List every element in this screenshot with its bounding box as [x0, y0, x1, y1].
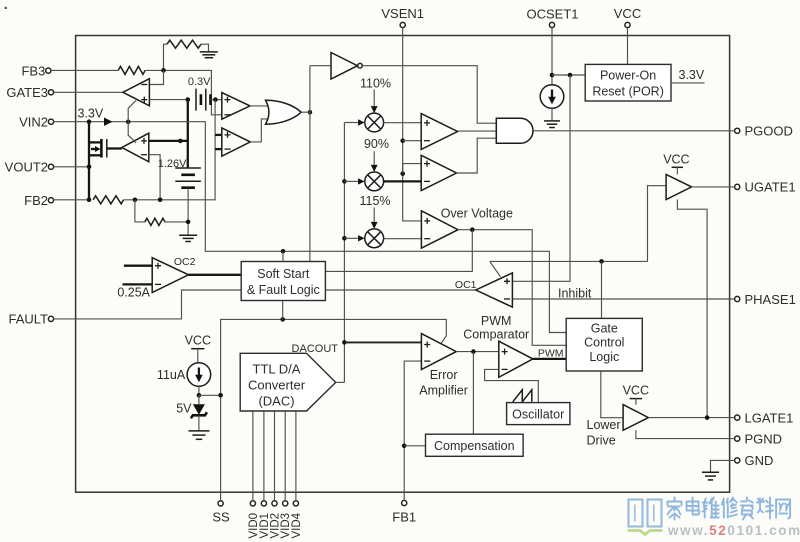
node DACOUT-EA	[342, 340, 421, 345]
wire U5minus stub	[215, 148, 222, 150]
pin VCC	[614, 6, 641, 28]
wire VIN2 3.3V rail	[54, 122, 567, 333]
speck	[5, 7, 7, 9]
wire POR 3.3V output	[671, 82, 705, 84]
arrow 110% down	[371, 90, 378, 114]
svg-text:Gate: Gate	[591, 321, 618, 335]
wire U5plus stub	[215, 134, 222, 136]
wire PWM out to GCL	[533, 358, 566, 360]
watermark site name	[668, 498, 791, 520]
or-gate U6	[266, 100, 302, 124]
pin VID4	[291, 411, 303, 539]
svg-text:Reset (POR): Reset (POR)	[592, 84, 664, 98]
comparator U5 (FB2 monitor)	[222, 128, 251, 156]
node LGATE-UGATE return	[705, 415, 710, 420]
svg-text:Lower: Lower	[587, 418, 621, 432]
buffer U16 UGATE driver	[663, 152, 691, 199]
and-gate U10	[496, 118, 533, 143]
wire VSEN1 vertical net	[403, 28, 422, 221]
pin UGATE1	[735, 180, 796, 195]
svg-text:SS: SS	[212, 510, 230, 525]
pin PGOOD	[735, 124, 793, 139]
wire 1.26V to U3 plus	[149, 140, 188, 142]
svg-text:GND: GND	[745, 453, 774, 468]
wire inhibit to UGATE driver	[648, 186, 667, 262]
wire LGATE out	[648, 417, 734, 419]
pin VID0	[248, 411, 260, 539]
svg-text:FB1: FB1	[392, 510, 416, 525]
svg-text:90%: 90%	[364, 137, 389, 151]
pin PGND	[735, 431, 782, 446]
block Gate Control Logic	[566, 318, 642, 371]
wire OCSET1 to OC1 plus	[512, 75, 570, 281]
label Lower Drive	[587, 418, 621, 448]
svg-text:Over Voltage: Over Voltage	[441, 207, 513, 221]
node softstart top	[281, 249, 286, 262]
current source I2 11uA	[185, 334, 211, 396]
symbol 3.3V arrow	[104, 118, 113, 126]
wire OR out net	[301, 66, 310, 262]
node battery right	[213, 97, 218, 102]
multiplier X2 (90%)	[344, 172, 421, 191]
multiplier X1 (110%)	[344, 113, 421, 132]
wire VCC to POR box	[627, 28, 629, 65]
svg-text:VIN2: VIN2	[19, 114, 48, 129]
pin FB1	[392, 500, 416, 524]
svg-text:& Fault Logic: & Fault Logic	[247, 283, 320, 297]
wire U8 out to AND	[458, 130, 497, 132]
resistor R1 (FB3 to gnd)	[164, 40, 209, 70]
node Q1-FB2	[87, 198, 92, 203]
svg-text:VCC: VCC	[185, 334, 211, 348]
pin LGATE1	[735, 410, 794, 425]
node VSEN1-comp90	[400, 164, 421, 176]
watermark book icon	[628, 500, 663, 535]
wire FB1 net	[404, 361, 421, 500]
comparator U12 OC2	[123, 256, 196, 293]
svg-text:110%: 110%	[360, 76, 391, 90]
transistor Q1 (pass MOSFET)	[89, 122, 122, 200]
svg-text:VSEN1: VSEN1	[381, 6, 424, 21]
ground at GND pin	[702, 472, 719, 480]
resistor R4 (FB2 to gnd)	[135, 200, 188, 226]
svg-text:Converter: Converter	[248, 377, 306, 392]
svg-text:Amplifier: Amplifier	[419, 384, 468, 398]
svg-text:VID4: VID4	[291, 512, 303, 538]
svg-text:Inhibit: Inhibit	[558, 286, 592, 300]
svg-text:FAULT: FAULT	[9, 312, 49, 327]
svg-text:GATE3: GATE3	[6, 85, 48, 100]
label 115%	[359, 194, 390, 208]
pin VSEN1	[381, 6, 424, 28]
wire softstart to OC1	[325, 289, 475, 291]
label DACOUT	[292, 343, 339, 355]
node FB1-compensation	[402, 444, 426, 449]
pin FB3	[21, 63, 50, 78]
svg-text:(DAC): (DAC)	[258, 393, 294, 408]
wire I2 to SS line	[199, 394, 221, 396]
node OV output	[470, 227, 475, 232]
label 11uA	[157, 368, 186, 382]
svg-text:PHASE1: PHASE1	[745, 292, 796, 307]
svg-text:Compensation: Compensation	[434, 439, 515, 453]
buffer U17 LGATE driver	[623, 383, 649, 430]
wire UGATE out	[692, 186, 735, 188]
wire FAULT to Soft Start logic	[54, 290, 242, 319]
comparator U9 (90% UV)	[421, 155, 456, 190]
wire U2 plus to 0.3V ref	[149, 99, 187, 101]
svg-text:PWM: PWM	[481, 314, 512, 328]
wire oscillator to PWM minus	[485, 369, 539, 402]
wire OR to inverter	[310, 65, 331, 67]
pin PHASE1	[735, 292, 796, 307]
op-amp U14 error amplifier	[421, 334, 456, 370]
node ref-U3 junction	[178, 139, 183, 144]
label PWM Comparator	[463, 314, 529, 341]
wire UGATE return	[677, 200, 707, 418]
zener D1	[191, 395, 207, 431]
label PWM out	[538, 347, 564, 359]
svg-text:Logic: Logic	[589, 350, 619, 364]
ground G4	[189, 431, 210, 439]
svg-text:UGATE1: UGATE1	[745, 180, 796, 195]
svg-text:VOUT2: VOUT2	[5, 160, 48, 175]
multiplier X3 (115%)	[344, 229, 421, 248]
svg-text:11uA: 11uA	[157, 368, 186, 382]
label Inhibit	[558, 286, 592, 300]
node inhibit-GCL	[599, 259, 604, 318]
svg-text:Error: Error	[430, 368, 458, 382]
svg-text:FB3: FB3	[21, 63, 45, 78]
wire OC2 out	[189, 274, 242, 276]
block Compensation	[426, 434, 524, 456]
svg-text:3.3V: 3.3V	[78, 106, 104, 120]
current source I1 (OCSET)	[540, 85, 564, 121]
wire GCL to lower drive	[601, 371, 623, 418]
wire inverter out to AND	[362, 66, 496, 124]
svg-text:PGOOD: PGOOD	[745, 124, 793, 139]
wire OV to Soft Start	[325, 230, 472, 272]
node VIN2-comp bias	[126, 120, 131, 125]
wire DACOUT vertical net	[343, 123, 345, 383]
IC boundary box	[76, 36, 730, 493]
ground G3	[179, 235, 197, 241]
node FB3 junction	[161, 68, 166, 73]
svg-text:OC2: OC2	[174, 256, 196, 268]
node DACOUT-X2	[342, 179, 347, 184]
resistor R3 (FB2)	[93, 100, 215, 204]
node I2-SS a	[197, 393, 202, 398]
label 3.3V	[78, 106, 104, 120]
node battery left	[186, 97, 191, 102]
node OR output	[308, 110, 313, 115]
pin GND	[735, 453, 774, 468]
node FB2-U3	[158, 198, 163, 203]
pin VID1	[259, 411, 271, 539]
svg-text:Oscillator: Oscillator	[512, 407, 564, 421]
pin VIN2	[19, 114, 54, 129]
svg-text:0.25A: 0.25A	[117, 285, 150, 299]
label 0.25A	[117, 285, 150, 299]
wire inhibit net	[490, 261, 648, 276]
label 3.3V POR	[679, 68, 705, 82]
node VSEN1-comp110	[400, 138, 421, 143]
wire GND to ground	[711, 460, 735, 472]
wire PHASE1 to OC1 minus	[512, 298, 734, 300]
svg-text:FB2: FB2	[24, 193, 48, 208]
svg-text:Soft Start: Soft Start	[257, 267, 310, 281]
wire U9 out to AND	[457, 138, 497, 173]
inverter U7 (VSEN buffer)	[331, 53, 362, 80]
svg-text:Control: Control	[584, 336, 624, 350]
wire FB3 to resistor R2	[51, 69, 118, 71]
node VIN2-Q1	[87, 119, 92, 124]
comparator U3 (VOUT2 regulator)	[122, 133, 149, 162]
wire OCSET1 stub	[551, 28, 553, 85]
svg-text:VCC: VCC	[614, 6, 641, 21]
wire PGOOD net	[533, 130, 735, 132]
svg-text:VCC: VCC	[623, 383, 649, 397]
wire OCSET1 to POR	[552, 74, 585, 76]
svg-text:OC1: OC1	[455, 279, 477, 291]
svg-text:PGND: PGND	[745, 431, 783, 446]
svg-text:115%: 115%	[359, 194, 390, 208]
wire SS net	[221, 319, 447, 500]
comparator U11 (over voltage)	[421, 211, 458, 248]
node OCSET1-b	[568, 73, 573, 78]
label Error Amplifier	[419, 368, 468, 398]
svg-text:Power-On: Power-On	[600, 68, 656, 82]
comparator U8 (110% UV)	[421, 114, 457, 150]
wire U4 out to OR	[250, 105, 268, 107]
wire FB3 to U2 minus	[149, 70, 163, 84]
arrow 90% down	[371, 151, 378, 172]
comparator U4 (FB3 monitor)	[222, 93, 250, 120]
node DACOUT-X3	[342, 236, 347, 241]
svg-text:Drive: Drive	[587, 433, 616, 447]
wire U5 out to OR	[250, 119, 267, 142]
pin GATE3	[6, 85, 53, 100]
resistor R2 (FB3)	[118, 66, 222, 114]
node Q1-VOUT2	[87, 165, 92, 170]
wire DAC out	[336, 381, 345, 383]
wire U3 minus to FB2	[149, 155, 160, 200]
svg-text:VCC: VCC	[663, 152, 689, 166]
label 5V	[176, 402, 192, 416]
pin VID3	[280, 411, 292, 539]
svg-text:5V: 5V	[176, 402, 192, 416]
node OCSET1-a	[550, 73, 555, 78]
battery 0.3V	[188, 76, 222, 110]
ground G1	[200, 52, 218, 58]
svg-text:PWM: PWM	[538, 347, 564, 359]
block Soft Start and Fault Logic	[241, 262, 325, 301]
wire FB2 entry	[54, 199, 89, 201]
comparator U15 PWM	[499, 341, 533, 377]
pin FB2	[24, 193, 53, 208]
pin OCSET1	[526, 7, 578, 28]
symbol sawtooth	[513, 390, 532, 402]
pin SS	[212, 501, 230, 525]
label Over Voltage	[441, 207, 513, 221]
wire bias diagonals	[128, 101, 136, 143]
wire GATE3 to comparator U2	[54, 91, 123, 93]
wire VOUT2 to node	[54, 166, 89, 168]
battery 1.26V reference	[158, 158, 201, 235]
wire ref chain down	[187, 100, 189, 168]
wire PGND return	[636, 430, 735, 438]
svg-text:OCSET1: OCSET1	[526, 7, 578, 22]
wire OV out to GCL	[458, 230, 566, 346]
arrow 115% down	[371, 208, 378, 229]
label 90%	[364, 137, 389, 151]
svg-text:TTL D/A: TTL D/A	[253, 361, 301, 376]
label 110%	[360, 76, 391, 90]
node I2-SS b	[218, 393, 223, 398]
block TTL D/A Converter (DAC)	[240, 353, 336, 411]
pin VOUT2	[5, 160, 54, 175]
wire EA out	[456, 351, 499, 353]
node R4-gnd	[186, 220, 191, 225]
svg-text:www.520101.com: www.520101.com	[667, 523, 800, 538]
pin FAULT	[9, 312, 54, 327]
block Oscillator	[507, 403, 570, 425]
node EA-comp	[471, 349, 476, 434]
svg-text:0.3V: 0.3V	[188, 76, 211, 88]
block Power-On Reset	[585, 64, 671, 101]
svg-text:Comparator: Comparator	[463, 327, 529, 341]
comparator U13 OC1	[455, 273, 512, 307]
pin VID2	[270, 411, 282, 539]
svg-text:3.3V: 3.3V	[679, 68, 705, 82]
ground G2	[544, 121, 560, 128]
comparator U2 (GATE3 driver)	[123, 79, 149, 106]
node FB2-R3	[133, 198, 138, 203]
svg-text:LGATE1: LGATE1	[745, 410, 794, 425]
node SS-softstart stub	[280, 301, 285, 322]
watermark url	[667, 523, 800, 538]
